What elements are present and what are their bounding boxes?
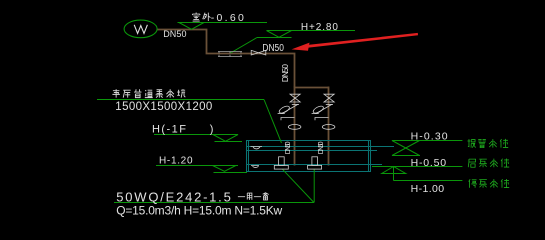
svg-text:H-1.00: H-1.00 (411, 183, 445, 195)
svg-text:DN50: DN50 (285, 141, 292, 154)
svg-text:H-0.30: H-0.30 (411, 131, 448, 143)
svg-text:): ) (210, 124, 214, 136)
svg-text:DN50: DN50 (262, 43, 284, 54)
svg-text:Q=15.0m3/h H=15.0m N=1.5Kw: Q=15.0m3/h H=15.0m N=1.5Kw (116, 204, 282, 218)
svg-text:1500X1500X1200: 1500X1500X1200 (115, 101, 212, 113)
svg-text:-0.60: -0.60 (211, 12, 244, 24)
svg-text:DN50: DN50 (163, 29, 186, 39)
svg-text:H-1.20: H-1.20 (159, 156, 193, 167)
svg-text:H+2.80: H+2.80 (301, 22, 338, 33)
svg-text:H(-1F: H(-1F (152, 124, 186, 136)
svg-text:DN50: DN50 (318, 141, 325, 154)
svg-text:H-0.50: H-0.50 (411, 157, 447, 169)
svg-text:50WQ/E242-1.5: 50WQ/E242-1.5 (116, 189, 231, 204)
svg-text:DN50: DN50 (281, 64, 290, 83)
